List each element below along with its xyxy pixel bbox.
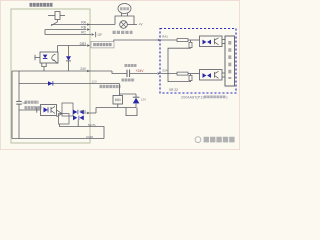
diode D3 — [48, 81, 53, 86]
wire to input row1 — [114, 40, 157, 41]
bridge rectifier BR1 — [73, 110, 77, 115]
label linear DC supply — [100, 85, 121, 88]
compressor M1 — [118, 4, 131, 14]
wire DB3 (pulse output) — [58, 45, 87, 47]
resistor R4 — [190, 74, 192, 76]
U2 phototransistor — [50, 107, 52, 113]
arrow RB — [87, 28, 90, 30]
optocoupler U1 — [40, 52, 58, 63]
optocoupler U3 — [200, 36, 223, 47]
svg-text:+24V: +24V — [136, 69, 145, 73]
jog loop — [126, 108, 137, 116]
bridge bottom pin — [77, 120, 79, 127]
svg-text:RC: RC — [81, 31, 86, 35]
relay block B — [59, 114, 70, 125]
connector bar OF — [95, 32, 97, 37]
U1 emitter pins — [42, 63, 46, 67]
label vehicle supply — [125, 64, 137, 67]
wire joint RB-RC — [44, 30, 46, 35]
wire RA — [51, 24, 115, 26]
switch S1 — [51, 22, 58, 26]
capacitor C1 — [126, 70, 128, 77]
U2 LED — [44, 107, 48, 112]
reg output pin — [117, 104, 119, 108]
label 24V source — [122, 78, 135, 81]
wire reg input — [119, 84, 121, 96]
U3 to IC wires — [222, 39, 225, 41]
svg-text:2004A8T(P12: 2004A8T(P12 — [181, 95, 204, 99]
svg-text:RA1: RA1 — [162, 34, 168, 38]
watermark icon — [195, 137, 201, 143]
arrow row2 — [158, 72, 161, 74]
wire RC — [45, 34, 91, 36]
wire row1 — [161, 39, 178, 41]
resistor R1 — [177, 39, 188, 42]
link to bridge — [95, 108, 97, 114]
title label (blurred CJK) — [30, 3, 53, 7]
optocoupler U2 — [41, 105, 57, 116]
arrow row1 — [158, 39, 161, 41]
U1 LED — [43, 55, 48, 59]
left rail outer — [11, 71, 13, 139]
svg-text:DB3: DB3 — [80, 42, 87, 46]
wire to input row2 — [130, 73, 157, 75]
signal input box (dashed) — [160, 29, 236, 94]
zener D2 — [135, 94, 137, 97]
wire row2 — [161, 73, 178, 75]
bridge output wire — [84, 112, 87, 114]
svg-text:24V: 24V — [80, 67, 87, 71]
signal name box (pulse output) — [91, 41, 114, 48]
U2 input wire — [19, 109, 41, 111]
fuse FU1 — [48, 12, 65, 22]
resistor R2 — [190, 40, 192, 42]
dc bus — [96, 107, 136, 109]
svg-text:OF: OF — [98, 33, 103, 37]
fan motor M2 — [120, 21, 128, 29]
return bus — [168, 48, 191, 82]
U1 phototransistor — [52, 54, 56, 61]
svg-text:): ) — [226, 95, 228, 99]
motor frame — [115, 16, 134, 25]
label solenoid line1 — [25, 101, 39, 104]
left rail inner — [18, 71, 20, 101]
enclosure box (air conditioner unit, green border) — [11, 9, 90, 143]
resistor R3 — [177, 72, 188, 75]
compressor legs — [121, 13, 123, 16]
svg-text:S24: S24 — [162, 68, 168, 72]
signal processor IC U6 — [225, 36, 235, 86]
watermark text — [204, 137, 236, 143]
wire fan right — [127, 24, 137, 26]
arrow RC — [92, 33, 95, 35]
COM rail — [12, 138, 104, 140]
relay block A — [62, 103, 73, 116]
svg-text:MCTL: MCTL — [88, 123, 96, 127]
step wire — [112, 71, 127, 74]
arrow RA — [87, 23, 90, 25]
collector tap U1 — [57, 46, 59, 53]
24V rail — [12, 70, 112, 72]
page border — [1, 1, 240, 150]
diode D1 — [68, 46, 70, 57]
optocoupler U4 — [200, 70, 223, 81]
svg-text:COM: COM — [86, 135, 94, 139]
U4 to IC wires — [222, 72, 225, 74]
svg-text:VR 22: VR 22 — [169, 88, 178, 92]
svg-text:RB: RB — [81, 26, 86, 30]
arrow MCA — [87, 112, 90, 114]
MCTL wire — [60, 124, 105, 139]
12V feed wire — [19, 83, 120, 85]
svg-text:RA: RA — [81, 21, 86, 25]
arrow DB3 — [87, 44, 90, 46]
label solenoid line2 — [25, 106, 42, 109]
regulator U5 — [113, 96, 123, 105]
label fan motor — [113, 31, 133, 34]
svg-text:12V: 12V — [92, 79, 97, 83]
svg-text:+V: +V — [139, 23, 144, 27]
driver transistor Q1 — [57, 110, 63, 114]
svg-text:12V: 12V — [141, 98, 146, 102]
svg-text:MCA: MCA — [80, 109, 87, 113]
arrow 24V — [87, 70, 90, 72]
capacitor C2 — [16, 100, 22, 102]
U1 input stub — [35, 57, 41, 59]
wire RB — [45, 29, 87, 31]
